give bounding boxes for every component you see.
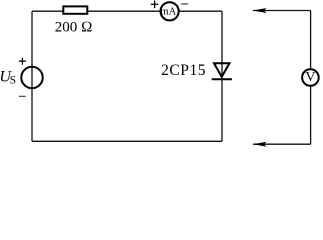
ammeter U1 (mA) [160,2,178,20]
wire: voltmeter branch vertical [310,11,312,145]
svg-text:200 Ω: 200 Ω [55,20,93,36]
wire: voltmeter branch bottom [253,143,311,145]
label US [0,69,16,87]
diode D 2CP15 [212,63,232,79]
svg-text:V: V [305,70,315,85]
arrowhead bottom (points left) [253,142,267,147]
svg-text:2CP15: 2CP15 [161,62,206,79]
voltmeter V [302,69,319,86]
ammeter minus terminal mark [181,3,188,5]
resistor R 200ohm body [63,6,87,13]
wire: main loop top [32,10,222,12]
wire: main loop bottom [32,140,222,142]
wire: main loop right [221,11,223,141]
source plus mark [19,58,26,65]
wire: main loop left [31,11,33,141]
svg-text:S: S [10,75,16,87]
source minus mark [19,95,26,97]
voltage source US [21,67,42,88]
ammeter plus terminal mark [151,1,159,9]
wire: voltmeter branch top [253,10,311,12]
svg-text:mA: mA [160,7,176,18]
arrowhead top (points left) [253,8,267,13]
